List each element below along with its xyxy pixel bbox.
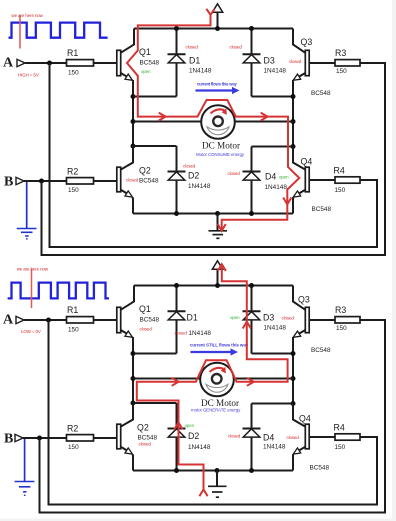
node: D2 to ground rail [174,211,179,216]
svg-text:1N4148: 1N4148 [189,68,212,75]
svg-text:Q1: Q1 [139,47,151,57]
diode D4 (panel 2) [228,404,299,471]
svg-text:BC548: BC548 [140,317,160,324]
svg-text:R3: R3 [335,48,346,58]
wire A feedback loop to R4 [50,63,378,247]
wire B row (panel 2) [23,437,117,439]
svg-text:R1: R1 [67,48,78,58]
svg-text:1N4148: 1N4148 [264,68,287,75]
svg-text:Motor CONSUME energy: Motor CONSUME energy [196,152,245,157]
svg-text:D3: D3 [264,56,275,66]
page edge shading bottom [0,519,396,521]
ground at B (blue, panel 2) [15,438,35,496]
svg-text:Q4: Q4 [299,413,311,423]
node: D4 to ground rail [249,211,254,216]
svg-text:B: B [4,175,13,190]
svg-text:current STILL flows this way: current STILL flows this way [190,343,249,348]
node A junction (panel 2) [46,318,51,323]
diode D2 (panel 2) [133,403,211,471]
node: Q1 emitter / D1 [131,94,136,99]
node: motor right [291,119,296,124]
svg-text:R2: R2 [67,423,78,433]
node: Q1 emitter / D1 (panel 2) [131,351,136,356]
svg-text:Q1: Q1 [139,304,151,314]
svg-text:closed: closed [126,178,139,183]
diode D4 [228,147,294,214]
svg-text:BC548: BC548 [139,177,159,184]
svg-text:150: 150 [336,325,347,332]
resistor R4 (panel 2) [334,423,361,452]
svg-text:150: 150 [336,68,347,75]
input B label [4,175,24,190]
wire B row [24,180,117,182]
svg-text:Q2: Q2 [137,423,149,433]
svg-text:150: 150 [335,187,346,194]
wire A feedback loop to R4 (panel 2) [49,320,378,505]
node A junction [47,61,52,66]
svg-text:open: open [230,315,240,320]
svg-text:Q4: Q4 [301,156,313,166]
ground symbol [209,214,228,239]
waveform A (panel 1) [9,23,108,38]
ground at B (blue) [17,181,37,240]
node: D4 to ground rail (panel 2) [249,468,254,473]
diode D1 [133,26,212,97]
power supply symbol (panel 2) [212,261,222,288]
svg-text:Q2: Q2 [139,166,151,176]
node: motor left (panel 2) [131,376,136,381]
diode D2 [133,146,211,214]
resistor R1 [67,48,94,77]
svg-text:1N4148: 1N4148 [188,444,211,451]
right bridge node column [292,80,294,163]
node: Q3 emitter / D3 (panel 2) [291,351,296,356]
svg-text:HIGH = 5V: HIGH = 5V [18,73,39,78]
red current path (panel 2) [137,264,288,496]
svg-text:DC Motor: DC Motor [201,398,239,408]
svg-text:D2: D2 [188,431,199,441]
input A label [3,56,39,78]
left bridge node column (panel 2) [132,337,134,420]
node B junction (panel 2) [37,436,42,441]
time cursor marker (panel 2) [17,267,49,309]
emitter wire Q4 to rail [292,198,294,214]
right bridge node column (panel 2) [292,337,294,420]
svg-text:closed: closed [228,433,241,438]
wire B feedback loop to R3 [42,63,386,255]
svg-text:B: B [4,432,13,447]
svg-text:1N4148: 1N4148 [188,183,211,190]
svg-text:BC548: BC548 [310,465,330,472]
ground symbol (panel 2) [208,471,227,498]
power supply symbol [212,4,222,31]
svg-text:150: 150 [335,444,346,451]
svg-text:open: open [279,175,289,180]
diode D1 (panel 2) [133,283,211,354]
wire A row (panel 2) [24,319,117,321]
emitter wire Q4 to rail (panel 2) [292,455,294,471]
transistor Q4 [293,147,335,214]
svg-text:closed: closed [230,44,243,49]
svg-text:current flows this way: current flows this way [197,82,237,87]
svg-text:R2: R2 [67,166,78,176]
node: D4 branch (panel 2) [291,401,296,406]
transistor Q2 [117,146,159,197]
page edge shading right [392,0,396,521]
svg-text:closed: closed [175,330,188,335]
node: ground tap [215,211,220,216]
svg-text:D1: D1 [187,313,198,323]
svg-text:150: 150 [68,70,79,77]
DC motor M1 (panel 2) [191,363,241,413]
svg-text:A: A [3,56,14,71]
svg-text:closed: closed [282,315,295,320]
svg-text:closed: closed [228,171,241,176]
input A label (panel 2) [3,313,41,335]
node: motor right (panel 2) [291,376,296,381]
wire B feedback loop to R3 (panel 2) [40,320,386,513]
node: ground tap (panel 2) [215,468,220,473]
svg-text:closed: closed [186,44,199,49]
svg-text:R1: R1 [67,305,78,315]
resistor R4 [334,166,361,195]
svg-text:closed: closed [140,327,153,332]
svg-text:Q3: Q3 [301,37,313,47]
node B junction [39,179,44,184]
svg-text:we are here now: we are here now [17,267,49,272]
resistor R3 (panel 2) [335,305,360,332]
transistor Q2 (panel 2) [117,403,158,454]
resistor R1 (panel 2) [67,305,94,334]
svg-text:motor GENERATE energy: motor GENERATE energy [191,408,241,413]
+V supply rail (panel 2) [134,285,293,287]
svg-text:150: 150 [68,327,79,334]
node: motor left [131,119,136,124]
svg-text:D2: D2 [188,170,199,180]
node: D2 branch (panel 2) [131,401,136,406]
svg-text:D1: D1 [189,56,200,66]
svg-text:BC548: BC548 [311,90,331,97]
svg-text:150: 150 [68,444,79,451]
red current path (panel 1) [127,9,299,231]
svg-text:A: A [3,313,14,328]
svg-text:BC548: BC548 [140,60,160,67]
svg-text:BC548: BC548 [312,206,332,213]
svg-text:closed: closed [287,435,300,440]
svg-text:BC548: BC548 [311,347,331,354]
current flow note (panel 1) [196,82,240,95]
svg-text:R3: R3 [335,305,346,315]
left bridge node column [132,80,134,163]
ground rail (panel 2) [133,470,293,472]
svg-text:DC Motor: DC Motor [202,141,240,151]
diode D3 (panel 2) [230,283,294,354]
node: D2 to ground rail (panel 2) [174,468,179,473]
svg-text:closed: closed [183,164,196,169]
time cursor marker (panel 1) [12,13,44,49]
transistor Q3 [289,29,335,98]
resistor R3 [335,48,360,75]
svg-text:D4: D4 [263,432,274,442]
resistor R2 [67,166,94,194]
input B label (panel 2) [4,432,23,447]
+V supply rail [134,28,293,30]
svg-text:1N4148: 1N4148 [263,443,286,450]
svg-text:150: 150 [68,187,79,194]
svg-text:1N4148: 1N4148 [265,184,288,191]
svg-text:R4: R4 [334,423,345,433]
current flow note (panel 2) [190,343,249,356]
svg-text:open: open [141,69,151,74]
svg-text:LOW = 0V: LOW = 0V [21,329,41,334]
waveform A (panel 2) [8,283,109,299]
motor wire [133,121,293,123]
svg-text:BC548: BC548 [138,434,158,441]
motor wire (panel 2) [133,378,293,380]
wire A row [25,62,117,64]
diode D3 [230,26,294,97]
DC motor M1 [196,105,245,157]
svg-text:R4: R4 [334,166,345,176]
svg-text:closed: closed [139,441,152,446]
transistor Q4 (panel 2) [293,404,335,472]
emitter wire Q2 to rail (panel 2) [132,455,135,471]
node: Q3 emitter / D3 [291,94,296,99]
ground rail [133,213,293,215]
svg-text:Q3: Q3 [298,295,310,305]
emitter wire Q2 to rail [132,198,135,214]
transistor Q1 [117,29,160,81]
node: D4 branch [291,144,296,149]
transistor Q3 (panel 2) [293,286,335,355]
svg-text:we are here now: we are here now [12,13,44,18]
svg-text:closed: closed [289,59,302,64]
node: D2 branch [131,144,136,149]
svg-text:D4: D4 [265,172,276,182]
svg-text:1N4148: 1N4148 [264,325,287,332]
svg-text:open: open [185,423,195,428]
transistor Q1 (panel 2) [117,286,160,338]
resistor R2 (panel 2) [67,423,94,451]
svg-text:D3: D3 [263,313,274,323]
svg-text:1N4148: 1N4148 [189,330,212,337]
